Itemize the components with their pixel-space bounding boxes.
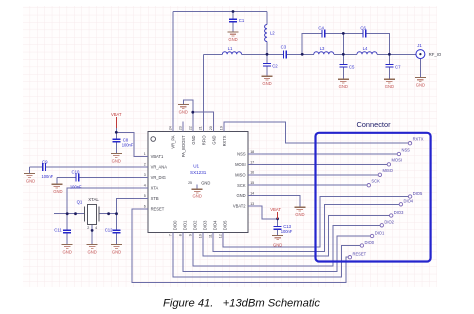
capacitor C11 <box>54 228 71 233</box>
junction <box>107 212 110 215</box>
svg-text:GND: GND <box>273 243 282 248</box>
svg-text:Q1: Q1 <box>77 200 83 205</box>
junction <box>342 53 345 56</box>
junction <box>342 32 345 35</box>
wire C9 gnd stem <box>29 167 31 173</box>
wire node C to J1 <box>389 53 416 55</box>
svg-text:DIO4: DIO4 <box>404 199 414 204</box>
svg-text:NSS: NSS <box>237 152 246 157</box>
pin number labels top 24-19 (rotated) <box>168 126 223 130</box>
svg-text:22: 22 <box>188 126 192 130</box>
svg-text:PA_BOOST: PA_BOOST <box>181 135 186 157</box>
svg-text:VBAT: VBAT <box>111 112 122 117</box>
wire C5 stem <box>342 54 344 64</box>
node DIO3 <box>390 214 393 217</box>
svg-text:5: 5 <box>144 194 146 198</box>
wire C8 gnd stem <box>115 142 117 153</box>
wire DIO0 pin7 to connector <box>173 233 360 278</box>
ground at C9 <box>24 173 35 183</box>
svg-text:1: 1 <box>144 152 146 156</box>
wire pin4 XTA to crystal <box>67 188 148 214</box>
wire C12 stem <box>116 214 118 230</box>
wire C1 stem <box>232 12 234 20</box>
ground at IC pin14 <box>294 207 305 217</box>
svg-text:GND: GND <box>63 249 72 254</box>
wire pin14 GND to ground <box>248 196 300 207</box>
svg-text:GND: GND <box>191 135 196 144</box>
svg-text:SX1231: SX1231 <box>190 170 207 175</box>
svg-text:VBAT2: VBAT2 <box>233 204 246 209</box>
U1 right pin names pins 18-13 <box>233 152 246 209</box>
U1 left pin names pins 1-6 <box>151 154 168 212</box>
wire node A to top branch <box>302 33 321 54</box>
wire L2 leads <box>266 12 268 25</box>
svg-text:GND: GND <box>295 212 304 217</box>
svg-text:L3: L3 <box>320 46 325 51</box>
svg-text:U1: U1 <box>193 164 199 169</box>
svg-text:100nF: 100nF <box>122 142 134 147</box>
junction <box>115 212 118 215</box>
wire C2 stem <box>266 54 268 63</box>
capacitor C9 (series) <box>42 160 54 179</box>
svg-text:RFIO: RFIO <box>201 136 206 146</box>
wire SCK to connector <box>248 184 367 186</box>
svg-text:21: 21 <box>199 126 203 130</box>
svg-text:17: 17 <box>250 160 254 164</box>
svg-text:GND: GND <box>262 81 271 86</box>
svg-text:MISO: MISO <box>383 168 393 173</box>
svg-text:100nF: 100nF <box>281 229 293 234</box>
wire DIO5 pin12 to connector <box>223 197 408 248</box>
ground below C13 <box>272 236 283 248</box>
node DIO1 <box>370 234 373 237</box>
svg-text:GND: GND <box>228 37 237 42</box>
svg-text:7: 7 <box>168 234 172 236</box>
ground below C11 <box>62 244 73 254</box>
wire MOSI to connector <box>248 163 387 165</box>
wire VBAT to pin1 VBAT1 <box>116 128 148 156</box>
pin stubs bottom <box>173 233 223 243</box>
svg-text:DIO1: DIO1 <box>375 230 385 235</box>
svg-text:9: 9 <box>188 234 192 236</box>
svg-text:GND: GND <box>193 194 202 199</box>
wire C13 stem <box>277 219 279 227</box>
ground below J1 <box>415 78 426 88</box>
inductor L4 <box>357 52 377 55</box>
svg-text:14: 14 <box>250 192 254 196</box>
svg-text:GND: GND <box>87 249 96 254</box>
op-amp U1 body rect <box>148 132 248 233</box>
junction <box>266 53 269 56</box>
svg-text:RF_IO: RF_IO <box>429 52 442 57</box>
wire J1 gnd stem <box>419 59 421 77</box>
svg-text:6: 6 <box>144 205 146 209</box>
svg-text:DIO3: DIO3 <box>203 220 208 230</box>
svg-text:DIO4: DIO4 <box>213 220 218 230</box>
pin stubs right <box>248 154 262 206</box>
svg-text:GND: GND <box>112 158 121 163</box>
svg-text:GND: GND <box>385 84 394 89</box>
capacitor C10 (series) <box>70 170 82 190</box>
node DIO0 <box>360 244 363 247</box>
ground below C12 <box>111 244 122 254</box>
svg-text:GND: GND <box>236 193 245 198</box>
node RESET <box>348 256 351 259</box>
svg-text:C12: C12 <box>105 228 113 233</box>
wire DIO3 pin10 to connector <box>203 216 390 257</box>
wire GND pins 22,20 tie <box>183 100 193 132</box>
wire L3 leads <box>302 53 314 55</box>
svg-text:C6: C6 <box>360 25 366 30</box>
capacitor C7 <box>385 64 401 69</box>
svg-text:10: 10 <box>198 234 202 238</box>
svg-text:NSS: NSS <box>402 147 411 152</box>
inductor L2 <box>265 25 267 42</box>
capacitor C13 <box>274 224 293 234</box>
svg-text:XTB: XTB <box>151 196 159 201</box>
connector box <box>316 120 431 262</box>
svg-text:DIO5: DIO5 <box>413 191 423 196</box>
svg-text:MOSI: MOSI <box>235 162 245 167</box>
inductor L3 <box>314 52 334 55</box>
ground at C10 <box>51 184 62 194</box>
junction <box>191 111 194 114</box>
node DIO5 <box>408 195 411 198</box>
power flag VBAT at VBAT2 <box>270 207 281 219</box>
svg-text:RESET: RESET <box>353 252 367 257</box>
node SCK <box>367 184 370 187</box>
svg-text:C1: C1 <box>239 18 245 23</box>
capacitor C8 <box>112 138 134 148</box>
svg-text:C10: C10 <box>72 170 80 175</box>
ground below C2 <box>262 76 273 86</box>
wire pin3 VR_DIG to C10 <box>79 176 148 178</box>
svg-text:4: 4 <box>95 226 97 230</box>
svg-text:XTA: XTA <box>151 185 159 190</box>
ground below crystal <box>87 244 98 254</box>
svg-text:C2: C2 <box>272 63 278 68</box>
svg-text:VR_DIG: VR_DIG <box>151 175 166 180</box>
wire C11 stem <box>66 214 68 230</box>
wire node B top branch 2 <box>343 32 362 34</box>
junction <box>66 212 69 215</box>
svg-text:20: 20 <box>209 126 213 130</box>
wire pin5 XTB to crystal <box>117 198 149 213</box>
svg-text:12: 12 <box>218 234 222 238</box>
pin number labels bottom 7-12 (rotated) <box>168 234 222 238</box>
svg-text:19: 19 <box>219 126 223 130</box>
pin stubs top <box>173 122 224 132</box>
svg-text:4: 4 <box>144 184 146 188</box>
svg-text:C9: C9 <box>42 160 48 165</box>
pin stubs left <box>134 156 148 209</box>
svg-text:MISO: MISO <box>235 172 245 177</box>
junction <box>232 10 235 13</box>
svg-text:2: 2 <box>144 163 146 167</box>
svg-text:3: 3 <box>144 173 146 177</box>
svg-text:Connector: Connector <box>356 120 391 129</box>
wire pin6 RESET to connector <box>132 209 348 282</box>
svg-text:18: 18 <box>250 150 254 154</box>
svg-text:13: 13 <box>250 202 254 206</box>
wire L4 leads <box>343 53 357 55</box>
wire C11 gnd stem <box>66 233 68 243</box>
capacitor C1 <box>229 18 245 23</box>
svg-text:GND: GND <box>212 135 217 144</box>
svg-text:DIO1: DIO1 <box>183 220 188 230</box>
wire C12 gnd stem <box>116 233 118 243</box>
svg-text:XTAL: XTAL <box>88 197 99 202</box>
node MISO <box>378 173 381 176</box>
svg-text:100nF: 100nF <box>42 174 54 179</box>
svg-text:RXTX: RXTX <box>413 137 424 142</box>
svg-text:L2: L2 <box>270 31 275 36</box>
capacitor C2 <box>263 63 278 68</box>
net name labels <box>353 137 424 257</box>
pin number labels right 18-13 <box>250 150 254 206</box>
ground below C7 <box>384 79 395 89</box>
svg-text:VBAT1: VBAT1 <box>151 154 164 159</box>
svg-text:SCK: SCK <box>371 179 380 184</box>
svg-text:GND: GND <box>339 84 348 89</box>
svg-text:8: 8 <box>178 234 182 236</box>
junction <box>276 217 279 220</box>
svg-text:VR_PA: VR_PA <box>171 135 176 148</box>
top pin names (rotated) <box>171 135 227 157</box>
ground below C1 <box>228 32 239 42</box>
capacitor C4 (series, top branch) <box>318 25 324 37</box>
wire VR_PA vertical to pin 24 <box>172 12 174 132</box>
wire DIO2 pin9 to connector <box>193 225 380 266</box>
exposed pad pin 25 <box>188 180 210 198</box>
svg-text:GND: GND <box>201 180 210 185</box>
svg-text:GND: GND <box>26 178 35 183</box>
svg-text:C7: C7 <box>395 64 401 69</box>
svg-text:DIO3: DIO3 <box>394 210 404 215</box>
svg-text:C11: C11 <box>54 228 62 233</box>
wire main RF line <box>203 53 222 55</box>
wire pin13 VBAT2 <box>248 206 278 219</box>
wire C8 stem <box>115 132 117 139</box>
pin1 indicator <box>151 137 156 142</box>
svg-text:L1: L1 <box>228 46 233 51</box>
svg-text:DIO0: DIO0 <box>173 220 178 230</box>
node RXTX <box>408 142 411 145</box>
inductor L1 <box>222 52 241 55</box>
wire top rail VR_PA <box>173 11 267 13</box>
svg-text:16: 16 <box>250 171 254 175</box>
svg-text:J1: J1 <box>417 43 422 48</box>
ground below C5 <box>338 79 349 89</box>
svg-text:RESET: RESET <box>151 206 165 211</box>
wire C10 gnd stem <box>56 177 58 183</box>
svg-text:SCK: SCK <box>237 183 246 188</box>
svg-text:25: 25 <box>188 181 192 185</box>
svg-text:DIO2: DIO2 <box>193 220 198 230</box>
wire crystal case pins to gnd <box>91 225 93 244</box>
svg-text:DIO5: DIO5 <box>223 220 228 230</box>
capacitor C6 (series, top branch) <box>360 25 366 37</box>
wire DIO1 pin8 to connector <box>183 233 370 272</box>
power flag VBAT at C8 <box>111 112 122 128</box>
wire pin2 VR_ANA to C9 <box>46 166 148 168</box>
node DIO4 <box>399 203 402 206</box>
junction <box>74 212 77 215</box>
wire RXTX from pin19 <box>224 122 408 143</box>
svg-text:15: 15 <box>250 181 254 185</box>
svg-text:C3: C3 <box>281 45 287 50</box>
crystal XTAL Q1 <box>77 197 100 230</box>
wire NSS to connector <box>248 153 397 155</box>
svg-text:MOSI: MOSI <box>392 158 402 163</box>
svg-text:DIO2: DIO2 <box>384 220 394 225</box>
svg-text:GND: GND <box>112 249 121 254</box>
connector net pins <box>348 137 424 259</box>
node DIO2 <box>380 224 383 227</box>
wire pin21 RFIO vertical <box>202 54 204 131</box>
ground below C8 <box>111 154 122 164</box>
wire C7 stem <box>388 54 390 64</box>
wire crystal left <box>54 213 85 215</box>
svg-text:L4: L4 <box>363 46 368 51</box>
svg-text:GND: GND <box>416 83 425 88</box>
bottom pin names DIO0-DIO5 (rotated) <box>173 220 228 230</box>
node NSS <box>397 152 400 155</box>
junction <box>388 53 391 56</box>
capacitor C5 <box>339 64 355 69</box>
pin number labels left 1-6 <box>144 152 146 209</box>
svg-text:VR_ANA: VR_ANA <box>151 164 168 169</box>
capacitor C3 (series) <box>281 45 287 59</box>
svg-text:11: 11 <box>208 234 212 238</box>
junction <box>115 131 118 134</box>
svg-text:100nF: 100nF <box>70 185 82 190</box>
junction <box>301 53 304 56</box>
svg-text:C4: C4 <box>318 25 324 30</box>
svg-text:C5: C5 <box>349 64 355 69</box>
svg-text:Figure 41. +13dBm Schematic: Figure 41. +13dBm Schematic <box>163 298 320 310</box>
wire DIO4 pin11 to connector <box>213 204 399 251</box>
svg-text:DIO0: DIO0 <box>365 240 375 245</box>
IC U1 body <box>134 122 262 243</box>
connector J1 RF_IO <box>416 43 442 59</box>
ground for IC pins 22,20 <box>178 105 189 115</box>
wire crystal right <box>99 213 117 215</box>
svg-text:23: 23 <box>178 126 182 130</box>
svg-text:GND: GND <box>53 189 62 194</box>
svg-text:24: 24 <box>168 126 172 130</box>
svg-text:GND: GND <box>179 110 188 115</box>
svg-text:VBAT: VBAT <box>270 207 281 212</box>
capacitor C12 <box>105 228 121 233</box>
junction <box>91 229 94 232</box>
wire MISO to connector <box>248 174 378 176</box>
svg-text:RXTX: RXTX <box>222 135 227 146</box>
node MOSI <box>387 163 390 166</box>
svg-text:2: 2 <box>87 226 89 230</box>
